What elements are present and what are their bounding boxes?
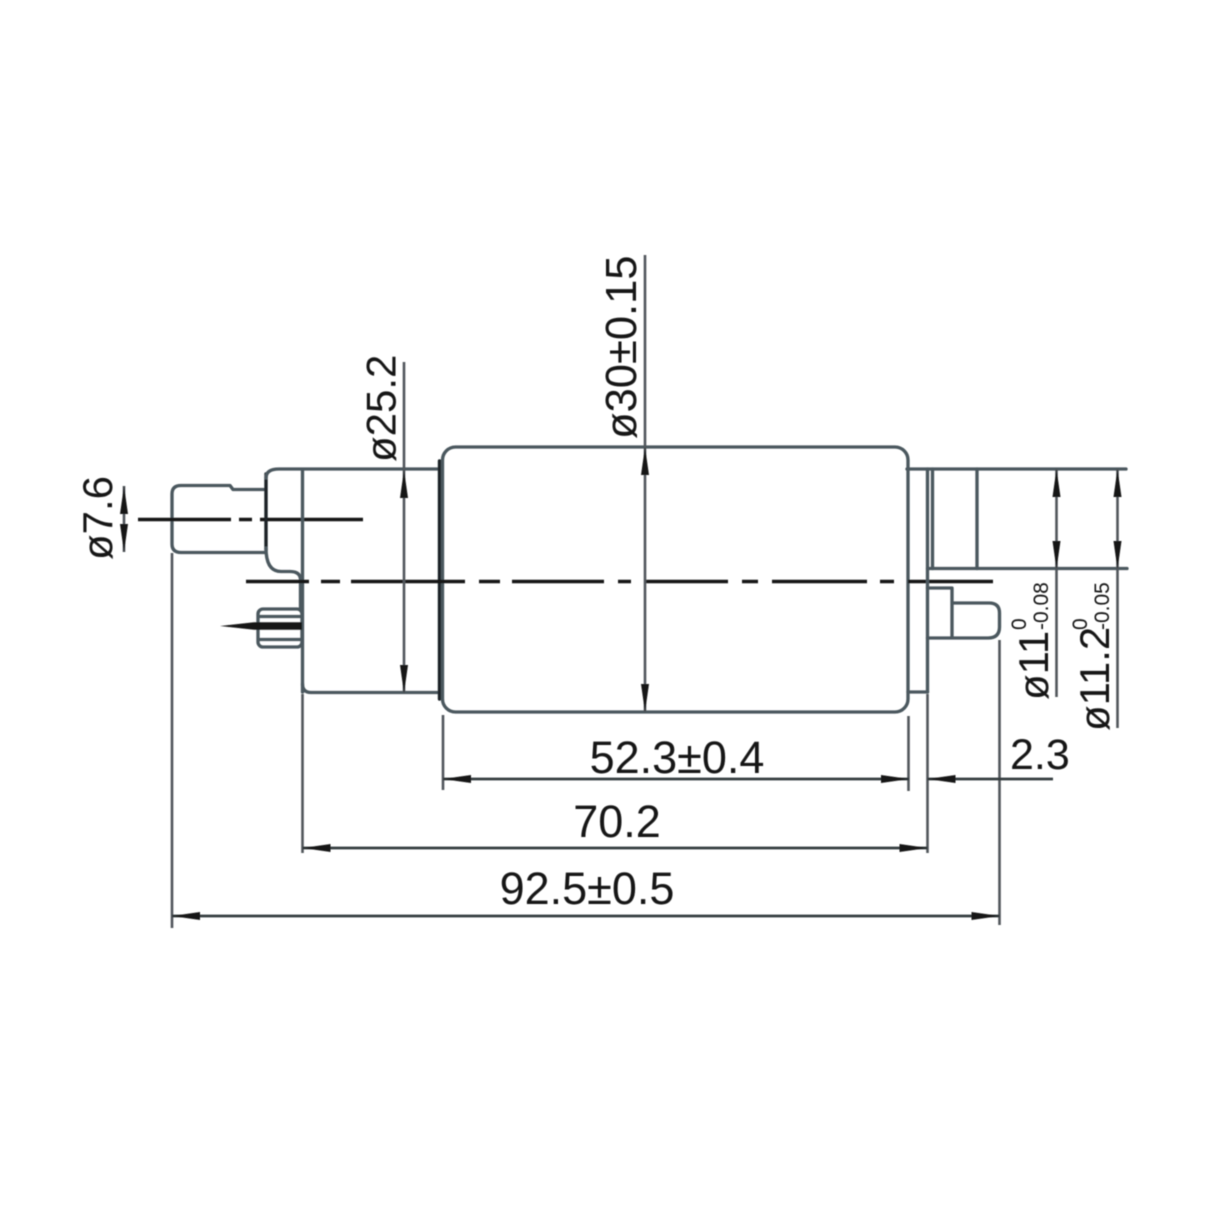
outlet tube step (975, 469, 978, 569)
body left extension line (442, 715, 445, 790)
outlet nipple (928, 588, 1000, 638)
svg-text:ø7.6: ø7.6 (74, 476, 121, 560)
svg-text:92.5±0.5: 92.5±0.5 (500, 863, 675, 914)
outlet tube inner edge (931, 469, 934, 569)
svg-text:ø25.2: ø25.2 (358, 355, 405, 462)
flange right extension line (926, 694, 929, 853)
stub extension line (171, 553, 174, 928)
main center line (246, 580, 993, 583)
inlet center line (138, 518, 363, 521)
flange right edge (926, 469, 929, 692)
svg-text:0: 0 (1008, 618, 1031, 630)
terminal pin (220, 622, 302, 629)
body right extension line (907, 716, 910, 791)
svg-text:70.2: 70.2 (573, 796, 661, 847)
outlet tube bottom edge and extension (928, 567, 1128, 570)
flange bottom edge (908, 690, 928, 693)
crimp edge (438, 461, 441, 699)
svg-text:0: 0 (1069, 618, 1092, 630)
svg-text:52.3±0.4: 52.3±0.4 (590, 732, 765, 783)
terminal pin sleeve (258, 609, 302, 647)
inlet stub (172, 486, 265, 553)
end cap top edge (266, 469, 438, 478)
dimension 92.5 ±0.5 (172, 863, 1000, 920)
cap left extension line (301, 694, 304, 853)
outlet tube top edge and extension (907, 467, 1126, 470)
nipple extension line (998, 640, 1001, 925)
dimension ø25.2 (358, 355, 409, 693)
end cap left edge (301, 470, 304, 692)
svg-text:-0.08: -0.08 (1030, 582, 1053, 630)
dimension 2.3 (928, 731, 1070, 783)
svg-text:ø30±0.15: ø30±0.15 (598, 256, 646, 440)
svg-text:ø11: ø11 (1010, 631, 1057, 700)
svg-text:-0.05: -0.05 (1091, 582, 1114, 630)
end cap bottom edge (303, 684, 439, 693)
dimension ø30 ±0.15 (598, 255, 649, 712)
collar (264, 474, 267, 550)
dimension 70.2 (303, 796, 928, 852)
dimension ø11.2 0/-0.05 (1069, 469, 1122, 731)
dimension ø7.6 (74, 476, 128, 560)
dimension 52.3 ±0.4 (443, 732, 909, 783)
svg-text:2.3: 2.3 (1010, 731, 1070, 779)
svg-text:ø11.2: ø11.2 (1071, 627, 1118, 731)
main body (443, 447, 909, 712)
dimension ø11 0/-0.08 (1008, 469, 1061, 700)
